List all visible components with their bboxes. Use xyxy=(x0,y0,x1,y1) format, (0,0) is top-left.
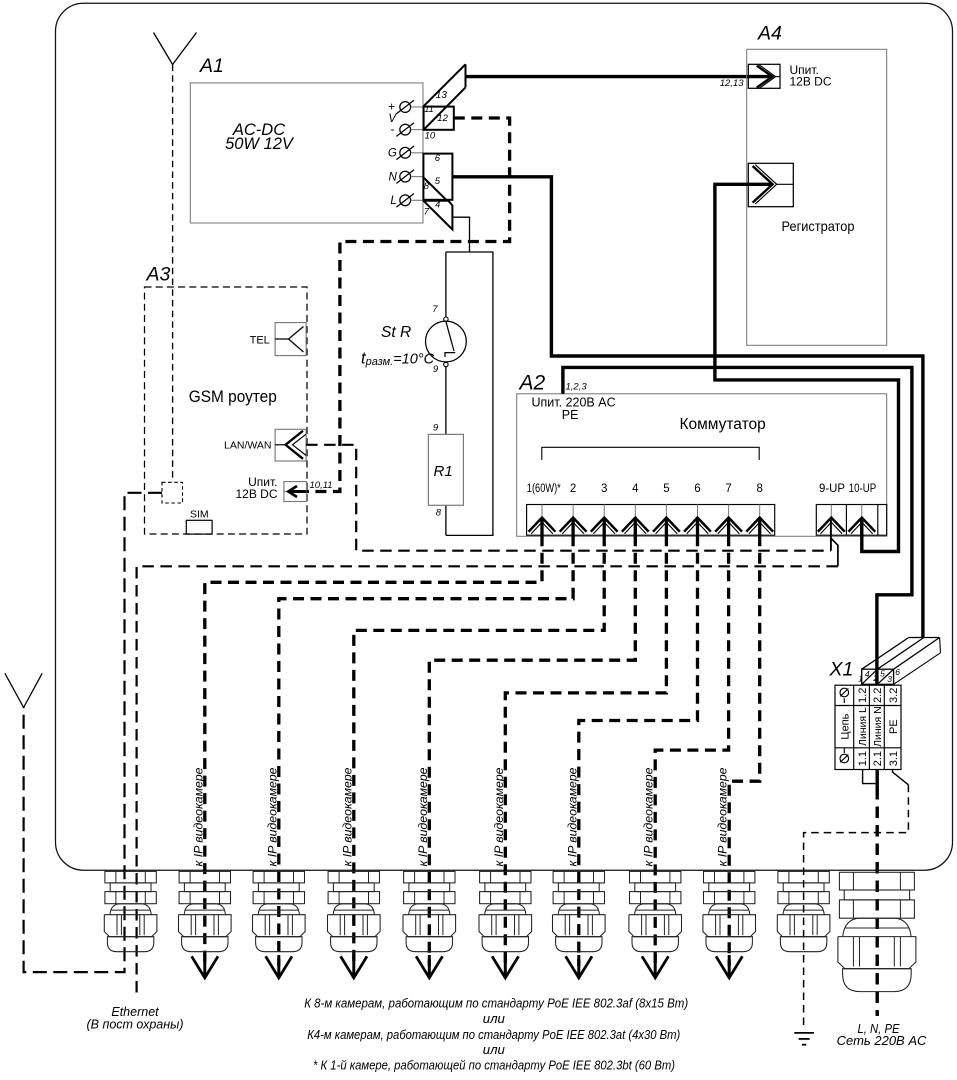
wire 1,2,3: 220V X1 to A2 xyxy=(563,367,912,684)
A1 power supply box AC-DC 50W 12V xyxy=(190,83,423,223)
cable gland 11 (large, 220V) xyxy=(839,872,914,890)
X1 screw symbol top xyxy=(840,688,849,697)
svg-text:к IP видеокамере: к IP видеокамере xyxy=(193,768,205,867)
cable gland 2 xyxy=(179,871,230,883)
arrow to IP camera 5 xyxy=(504,955,507,976)
svg-text:GSM роутер: GSM роутер xyxy=(189,388,277,406)
A4 power connector 12,13 xyxy=(748,64,780,88)
A3 GSM router box xyxy=(145,287,308,534)
X1 connector pins 4,5,6 xyxy=(862,669,894,684)
svg-text:10,11: 10,11 xyxy=(310,480,333,491)
A2 port 8 connector xyxy=(759,505,761,518)
antenna W1 (GSM, top) xyxy=(154,33,173,65)
svg-text:10-UP: 10-UP xyxy=(849,483,877,495)
resistor R1 (heater) xyxy=(428,434,463,505)
svg-text:8: 8 xyxy=(756,483,762,495)
A2 port 4 connector xyxy=(634,505,636,518)
wire: A2 port 6 to IP camera 6 (cable) xyxy=(579,535,698,966)
enclosure (cabinet outline) xyxy=(56,3,953,870)
A2 port 6 connector xyxy=(697,505,699,518)
svg-text:7: 7 xyxy=(424,207,430,218)
arrow to IP camera 4 xyxy=(428,955,431,976)
svg-text:8: 8 xyxy=(424,181,430,192)
wire: A1 L to heater circuit xyxy=(452,217,469,252)
arrow to IP camera 3 xyxy=(352,955,355,976)
wire: A2 port 1 to IP camera 1 (cable) xyxy=(205,535,542,966)
svg-text:к IP видеокамере: к IP видеокамере xyxy=(644,768,656,867)
svg-text:Сеть 220В AC: Сеть 220В AC xyxy=(837,1033,927,1048)
svg-text:1,2,3: 1,2,3 xyxy=(566,382,588,393)
svg-text:LAN/WAN: LAN/WAN xyxy=(224,440,271,452)
svg-text:к IP видеокамере: к IP видеокамере xyxy=(418,768,430,867)
A1 terminal G xyxy=(400,147,411,158)
antenna W2 (bottom-left, external) xyxy=(5,673,24,707)
wire: A2 port 8 to IP camera 8 (cable) xyxy=(729,535,760,966)
thermostat St R xyxy=(426,321,467,362)
wire: Ethernet to security post (dashed) xyxy=(831,539,838,567)
svg-text:2.2: 2.2 xyxy=(872,688,884,703)
wire: A4 LAN to A2 10-UP xyxy=(715,184,899,551)
svg-text:(В пост охраны): (В пост охраны) xyxy=(86,1018,183,1032)
wire: A2 port 2 to IP camera 2 (cable) xyxy=(279,535,573,966)
svg-text:Линия N: Линия N xyxy=(872,706,884,747)
svg-text:12,13: 12,13 xyxy=(720,78,744,89)
svg-text:Коммутатор: Коммутатор xyxy=(680,416,766,433)
cable gland 4 xyxy=(328,871,379,883)
svg-text:A2: A2 xyxy=(518,372,546,395)
A1 terminal L xyxy=(400,195,411,206)
A2 port 1 connector xyxy=(541,505,543,518)
svg-text:St R: St R xyxy=(381,324,411,341)
heater circuit loop wire xyxy=(446,252,493,535)
svg-text:3.1: 3.1 xyxy=(888,751,900,766)
svg-text:8: 8 xyxy=(436,508,442,519)
wire: 220V N/L A1 to X1 xyxy=(452,177,923,638)
A3 SIM slot xyxy=(186,520,212,534)
wire 12: 12V DC A1 to A3 router (dashed) xyxy=(307,118,510,492)
A2 switch (Коммутатор) box xyxy=(517,394,887,537)
A1 terminal N xyxy=(400,171,411,182)
A2 ports 1-8 connector row xyxy=(527,505,775,536)
cable gland 9 xyxy=(704,871,755,883)
svg-text:2.1: 2.1 xyxy=(872,751,884,766)
A2 port 7 connector xyxy=(728,505,730,518)
svg-text:3: 3 xyxy=(601,483,607,495)
A3 LAN/WAN connector xyxy=(275,429,306,461)
svg-text:V: V xyxy=(388,113,397,125)
svg-text:13: 13 xyxy=(436,90,448,101)
svg-text:К 8-м камерам, работающим по: К 8-м камерам, работающим по стандарту P… xyxy=(304,996,688,1011)
A2 port 2 connector xyxy=(572,505,574,518)
svg-text:PE: PE xyxy=(888,719,900,734)
svg-text:к IP видеокамере: к IP видеокамере xyxy=(494,768,506,867)
cable gland 6 xyxy=(480,871,531,883)
svg-text:A1: A1 xyxy=(199,55,224,77)
svg-text:N: N xyxy=(388,171,397,183)
wire: 220V supply cable (Сеть 220В AC) xyxy=(876,770,879,789)
cable gland 1 xyxy=(105,871,156,883)
wire: A2 port 4 to IP camera 4 (cable) xyxy=(429,535,635,966)
wire: PE to earth xyxy=(893,770,909,785)
svg-text:9: 9 xyxy=(433,364,439,375)
svg-text:A4: A4 xyxy=(757,23,782,45)
svg-text:К4-м камерам, работающим по ст: К4-м камерам, работающим по стандарту Po… xyxy=(307,1027,680,1042)
connector pins 10/12 (A1 -V output) xyxy=(424,107,454,130)
arrow to IP camera 8 xyxy=(728,955,731,976)
svg-text:SIM: SIM xyxy=(190,509,209,521)
arrow to IP camera 7 xyxy=(654,955,657,976)
svg-text:PE: PE xyxy=(562,408,579,422)
A2 port 9-UP connector xyxy=(830,505,832,518)
wire 13: +12V DC A1 to A4 xyxy=(466,75,772,78)
wire: X1 1.1 jumper xyxy=(863,770,878,784)
A4 LAN connector xyxy=(748,163,793,206)
svg-text:12В DC: 12В DC xyxy=(790,74,832,88)
cable gland 8 xyxy=(630,871,681,883)
svg-text:5: 5 xyxy=(435,176,441,187)
arrow to IP camera 6 xyxy=(577,955,580,976)
svg-text:R1: R1 xyxy=(434,463,453,480)
svg-text:к IP видеокамере: к IP видеокамере xyxy=(342,768,354,867)
svg-text:3: 3 xyxy=(887,674,892,684)
A3 power connector 10,11 xyxy=(284,482,307,502)
connector pins 6/5/8 (A1 G,N) xyxy=(423,154,452,200)
svg-text:6: 6 xyxy=(895,667,900,677)
svg-text:9-UP: 9-UP xyxy=(819,483,845,495)
svg-text:Цепь: Цепь xyxy=(839,713,851,739)
svg-text:10: 10 xyxy=(425,131,436,142)
A2 ports 9-UP/10-UP connector block xyxy=(816,505,886,536)
svg-text:6: 6 xyxy=(694,483,700,495)
svg-text:* К 1-й камере, работающей по: * К 1-й камере, работающей по стандарту … xyxy=(313,1058,675,1073)
svg-text:tразм.=10°C: tразм.=10°C xyxy=(361,350,435,369)
A1 terminal + xyxy=(400,102,411,113)
svg-text:1.1: 1.1 xyxy=(857,751,869,766)
A4 recorder box xyxy=(747,49,887,345)
wire: A2 port 7 to IP camera 7 (cable) xyxy=(655,535,728,966)
X1 screw symbol bottom xyxy=(840,754,849,763)
cable gland 3 xyxy=(253,871,304,883)
svg-text:3.2: 3.2 xyxy=(888,688,900,703)
svg-text:X1: X1 xyxy=(829,659,854,681)
A2 port 10-UP connector xyxy=(861,505,863,518)
svg-text:7: 7 xyxy=(432,304,438,315)
A2 port 3 connector xyxy=(603,505,605,518)
ports 1-8 group bracket xyxy=(542,447,759,460)
svg-text:12: 12 xyxy=(437,113,448,124)
svg-text:A3: A3 xyxy=(146,264,171,286)
ground symbol xyxy=(794,1032,814,1034)
svg-text:к IP видеокамере: к IP видеокамере xyxy=(718,768,730,867)
svg-text:или: или xyxy=(483,1011,506,1026)
svg-text:к IP видеокамере: к IP видеокамере xyxy=(567,768,579,867)
connector pins 11/13 (A1 +V output) xyxy=(424,64,466,106)
svg-text:1.2: 1.2 xyxy=(857,688,869,703)
svg-text:12В DC: 12В DC xyxy=(235,487,277,501)
A2 port 5 connector xyxy=(665,505,667,518)
wire: A2 port 5 to IP camera 5 (cable) xyxy=(505,535,666,966)
A3 TEL connector xyxy=(275,323,306,356)
svg-text:+: + xyxy=(388,101,395,113)
arrow to IP camera 2 xyxy=(277,955,280,976)
svg-text:к IP видеокамере: к IP видеокамере xyxy=(267,768,279,867)
A1 terminal - xyxy=(400,124,411,135)
svg-text:Регистратор: Регистратор xyxy=(782,218,855,234)
svg-text:-: - xyxy=(390,124,394,136)
svg-text:4: 4 xyxy=(865,669,870,679)
svg-text:1(60W)*: 1(60W)* xyxy=(527,483,561,495)
svg-text:4: 4 xyxy=(632,483,639,495)
svg-text:TEL: TEL xyxy=(250,334,270,346)
svg-text:11: 11 xyxy=(424,104,433,114)
svg-text:2: 2 xyxy=(872,673,878,683)
svg-text:9: 9 xyxy=(433,423,439,434)
wire: A3 LAN/WAN to A2 9-UP (dashed) xyxy=(306,445,831,551)
svg-text:L: L xyxy=(390,195,396,207)
svg-text:5: 5 xyxy=(663,483,669,495)
svg-text:1: 1 xyxy=(858,674,863,684)
cable gland 10 xyxy=(778,871,829,883)
arrow to IP camera 1 xyxy=(203,955,206,976)
wire: A2 port 3 to IP camera 3 (cable) xyxy=(354,535,604,966)
cable gland 7 xyxy=(553,871,604,883)
svg-text:или: или xyxy=(483,1042,506,1057)
svg-text:G: G xyxy=(388,148,397,160)
A3 antenna jack (dashed square) xyxy=(162,482,183,503)
svg-text:50W 12V: 50W 12V xyxy=(225,135,295,153)
connector pins 7/4 (A1 L output) xyxy=(423,201,452,230)
svg-text:6: 6 xyxy=(435,153,441,164)
svg-text:4: 4 xyxy=(435,200,440,211)
svg-text:2: 2 xyxy=(570,483,576,495)
svg-text:Линия L: Линия L xyxy=(857,707,869,746)
wire: GSM antenna feed line xyxy=(24,493,162,972)
svg-text:7: 7 xyxy=(725,483,731,495)
cable gland 5 xyxy=(404,871,455,883)
svg-text:5: 5 xyxy=(880,669,885,679)
